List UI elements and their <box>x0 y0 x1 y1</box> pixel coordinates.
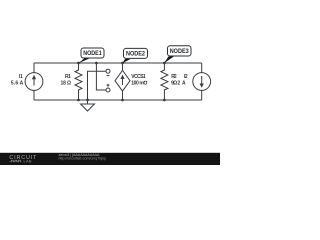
svg-text:R2: R2 <box>171 74 177 80</box>
svg-text:R1: R1 <box>65 74 71 80</box>
svg-text:NODE2: NODE2 <box>126 52 146 58</box>
svg-text:LAB: LAB <box>24 158 32 163</box>
svg-text:I1: I1 <box>19 74 23 80</box>
svg-text:100 m℧: 100 m℧ <box>131 80 147 87</box>
svg-text:5.6 A: 5.6 A <box>11 81 24 87</box>
svg-text:NODE1: NODE1 <box>83 51 102 57</box>
svg-text:9 Ω: 9 Ω <box>171 81 177 87</box>
svg-text:18 Ω: 18 Ω <box>61 81 72 87</box>
svg-text:VCCS1: VCCS1 <box>131 74 146 80</box>
svg-text:2 A: 2 A <box>177 81 186 87</box>
svg-text:NODE3: NODE3 <box>170 49 190 55</box>
svg-text:I2: I2 <box>184 74 188 80</box>
svg-text:http://circuitlab.com/cmq7fqkp: http://circuitlab.com/cmq7fqkp <box>59 156 107 160</box>
